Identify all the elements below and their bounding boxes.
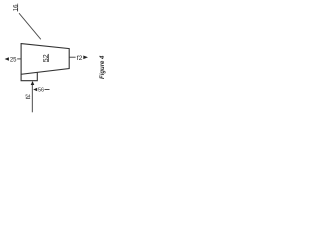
svg-text:25: 25 bbox=[10, 57, 17, 63]
wire bottom label arrow bbox=[45, 89, 50, 91]
svg-text:52: 52 bbox=[43, 54, 50, 62]
arrowhead left bbox=[5, 57, 9, 61]
underline of 52 bbox=[47, 54, 49, 62]
arrowhead right bbox=[83, 56, 88, 60]
svg-text:Figure 4: Figure 4 bbox=[100, 55, 106, 79]
arrowhead up into pedestal bbox=[31, 81, 35, 85]
svg-text:16: 16 bbox=[13, 4, 19, 11]
wire left output bbox=[17, 58, 21, 60]
svg-text:54: 54 bbox=[25, 94, 31, 99]
pedestal box under trapezoid bbox=[21, 72, 37, 80]
svg-text:56: 56 bbox=[38, 88, 44, 94]
svg-text:f2: f2 bbox=[77, 55, 83, 62]
leader line from 16 bbox=[19, 13, 41, 39]
block 52 (trapezoid) bbox=[21, 44, 69, 75]
wire right output bbox=[69, 56, 76, 58]
underline of 16 bbox=[17, 4, 19, 12]
underline of 54 bbox=[26, 97, 30, 99]
wire bottom input bbox=[31, 84, 33, 112]
arrowhead pointing left at input wire bbox=[33, 88, 37, 92]
